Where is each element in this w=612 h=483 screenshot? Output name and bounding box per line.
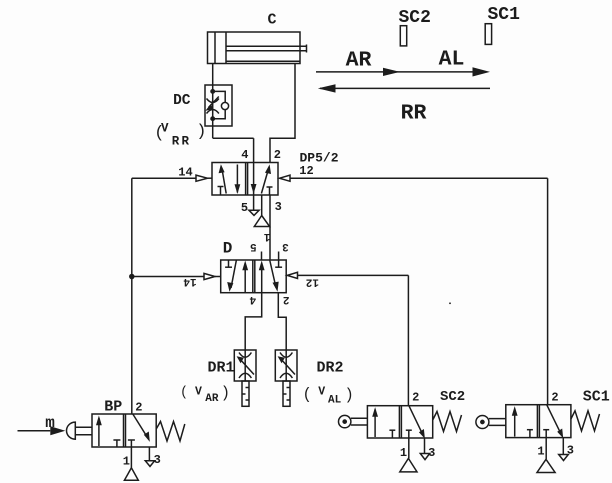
svg-text:1: 1 bbox=[400, 446, 407, 460]
svg-text:DR1: DR1 bbox=[208, 360, 235, 377]
svg-text:V: V bbox=[195, 385, 202, 398]
svg-text:BP: BP bbox=[104, 399, 122, 416]
svg-text:4: 4 bbox=[241, 148, 248, 162]
svg-text:C: C bbox=[267, 11, 276, 28]
svg-text:3: 3 bbox=[428, 446, 435, 460]
svg-text:DC: DC bbox=[173, 93, 191, 109]
svg-text:2: 2 bbox=[135, 401, 142, 415]
svg-text:3: 3 bbox=[567, 444, 574, 458]
svg-text:14: 14 bbox=[178, 166, 192, 180]
svg-text:SC2: SC2 bbox=[399, 8, 431, 28]
svg-text:): ) bbox=[221, 384, 230, 402]
svg-text:V: V bbox=[161, 121, 169, 135]
svg-text:AR: AR bbox=[205, 393, 219, 405]
svg-text:): ) bbox=[196, 122, 206, 141]
svg-text:AL: AL bbox=[439, 47, 465, 71]
svg-text:AL: AL bbox=[328, 394, 342, 406]
svg-text:2: 2 bbox=[551, 391, 558, 405]
svg-text:RR: RR bbox=[401, 102, 427, 126]
svg-text:RR: RR bbox=[172, 134, 191, 148]
svg-text:3: 3 bbox=[275, 200, 282, 214]
svg-text:2: 2 bbox=[283, 293, 290, 305]
svg-text:(: ( bbox=[303, 386, 312, 404]
svg-text:SC1: SC1 bbox=[488, 5, 521, 25]
svg-text:D: D bbox=[223, 240, 233, 258]
svg-text:SC2: SC2 bbox=[440, 389, 465, 405]
svg-text:3: 3 bbox=[282, 240, 289, 252]
svg-text:14: 14 bbox=[183, 275, 197, 287]
svg-text:2: 2 bbox=[274, 148, 281, 162]
svg-text:1: 1 bbox=[123, 455, 130, 469]
svg-text:12: 12 bbox=[306, 275, 319, 287]
svg-text:m: m bbox=[45, 414, 55, 432]
svg-text:DR2: DR2 bbox=[317, 360, 344, 377]
svg-text:5: 5 bbox=[241, 201, 248, 215]
svg-text:SC1: SC1 bbox=[583, 388, 610, 405]
svg-text:1: 1 bbox=[263, 230, 270, 242]
svg-text:12: 12 bbox=[299, 164, 313, 178]
svg-text:4: 4 bbox=[249, 293, 256, 305]
svg-text:AR: AR bbox=[346, 48, 372, 72]
svg-text:3: 3 bbox=[154, 453, 161, 467]
svg-text:5: 5 bbox=[250, 240, 257, 252]
svg-text:1: 1 bbox=[537, 445, 544, 459]
svg-text:V: V bbox=[318, 385, 325, 398]
svg-text:(: ( bbox=[180, 386, 188, 401]
svg-text:2: 2 bbox=[412, 391, 419, 405]
svg-text:): ) bbox=[345, 386, 354, 404]
